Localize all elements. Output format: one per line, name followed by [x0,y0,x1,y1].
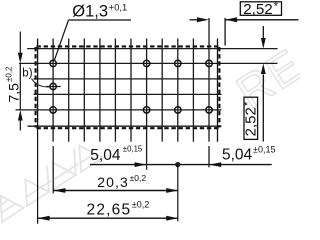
svg-text:±0,2: ±0,2 [5,66,14,82]
svg-text:2,52: 2,52 [243,1,273,18]
svg-text:±0,15: ±0,15 [123,145,143,154]
svg-text:±0,2: ±0,2 [130,173,147,183]
svg-text:5,04: 5,04 [222,146,253,163]
svg-text:*: * [242,101,254,106]
svg-text:7,5: 7,5 [6,83,22,103]
svg-text:b): b) [22,68,32,80]
svg-text:±0,15: ±0,15 [253,145,275,155]
svg-text:+0,1: +0,1 [109,2,127,12]
svg-text:*: * [274,1,279,13]
svg-text:2,52: 2,52 [242,107,259,136]
svg-text:22,65: 22,65 [87,201,132,218]
svg-text:5,04: 5,04 [90,147,121,164]
svg-text:20,3: 20,3 [97,174,129,190]
svg-text:±0,2: ±0,2 [132,199,149,209]
svg-text:Ø1,3: Ø1,3 [72,2,108,20]
